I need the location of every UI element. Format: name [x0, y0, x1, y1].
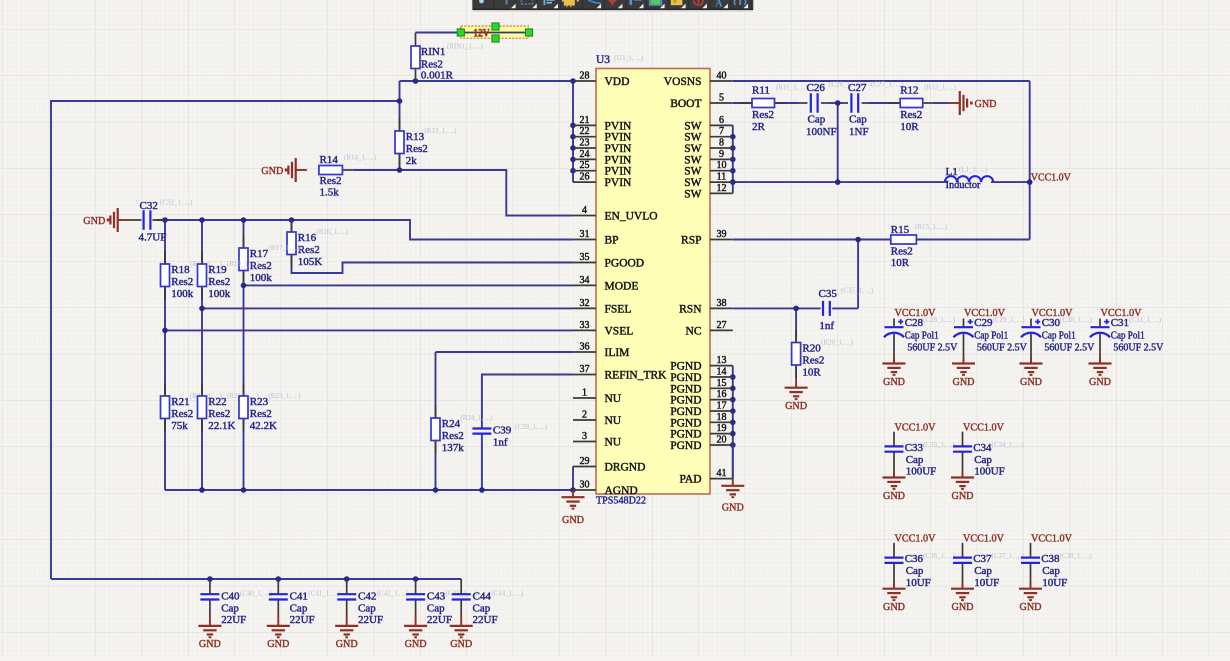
svg-text:10R: 10R: [802, 366, 821, 378]
resistor R16 105K: [291, 219, 293, 232]
svg-text:R14: R14: [320, 154, 339, 166]
junction RSN/R20: [793, 306, 799, 312]
wire BOOT net: [733, 102, 799, 104]
svg-text:Cap: Cap: [290, 603, 308, 615]
svg-text:GND: GND: [1020, 376, 1042, 388]
junction R19 top: [199, 217, 205, 223]
junction PVIN23: [570, 145, 576, 151]
svg-text:R21: R21: [171, 396, 189, 408]
svg-text:Res2: Res2: [421, 58, 443, 70]
pin 23 PVIN (left): [573, 138, 632, 156]
capacitor C36 10UF: [883, 533, 956, 613]
svg-text:VCC1.0V: VCC1.0V: [963, 421, 1004, 433]
svg-text:GND: GND: [883, 376, 905, 388]
svg-text:PGND: PGND: [670, 372, 701, 384]
junction PVIN24: [570, 157, 576, 163]
pin 8 SW (right): [684, 138, 733, 156]
wire R16 column: [291, 220, 293, 232]
junction VDD/PVIN: [570, 78, 576, 84]
svg-text:GND: GND: [953, 376, 975, 388]
svg-text:C27: C27: [848, 82, 867, 94]
toolbar icon: place pin: [506, 0, 508, 5]
svg-text:GND: GND: [83, 215, 105, 227]
capacitor C32 4.7UF: [130, 199, 193, 244]
svg-text:32: 32: [580, 298, 590, 309]
wire drop x399.5 VDD rail to left rail: [399, 81, 401, 101]
svg-text:VDD: VDD: [605, 76, 630, 88]
pin 37 REFIN_TRK (left): [573, 364, 667, 382]
svg-text:Res2: Res2: [320, 175, 342, 187]
svg-text:C33: C33: [905, 442, 924, 454]
wire RSP-RSN vertical x858.1: [857, 240, 859, 309]
svg-text:21: 21: [580, 115, 590, 126]
svg-text:(R23_1, ...): (R23_1, ...): [268, 392, 301, 400]
svg-text:31: 31: [580, 229, 590, 240]
svg-text:C42: C42: [358, 591, 376, 603]
svg-text:PGND: PGND: [670, 406, 701, 418]
svg-text:GND: GND: [883, 601, 905, 613]
svg-text:13: 13: [717, 355, 727, 366]
capacitor C43 22UF: [404, 579, 478, 650]
svg-text:Cap: Cap: [974, 454, 992, 466]
svg-text:137k: 137k: [442, 442, 465, 454]
pin 33 VSEL (left): [573, 320, 633, 338]
resistor R13 2k: [395, 118, 457, 167]
svg-text:SW: SW: [684, 154, 701, 166]
svg-text:560UF 2.5V: 560UF 2.5V: [1113, 341, 1163, 353]
svg-text:1: 1: [582, 388, 587, 399]
junction PGND14: [730, 374, 736, 380]
svg-text:100UF: 100UF: [974, 466, 1005, 478]
svg-text:Cap Pol1: Cap Pol1: [974, 329, 1008, 341]
junction R13 bottom / R14 net: [397, 167, 403, 173]
wire AGND rail y490: [165, 489, 573, 491]
svg-text:100k: 100k: [250, 272, 272, 284]
svg-text:GND: GND: [1020, 601, 1042, 613]
svg-text:PVIN: PVIN: [605, 154, 633, 166]
resistor R24 137k: [435, 405, 437, 418]
svg-text:(R16_1, ...): (R16_1, ...): [316, 228, 349, 236]
svg-text:PGND: PGND: [670, 361, 701, 373]
svg-text:GND: GND: [952, 490, 974, 502]
svg-text:VCC1.0V: VCC1.0V: [895, 533, 936, 545]
svg-text:22: 22: [580, 126, 590, 137]
svg-text:2R: 2R: [752, 121, 766, 133]
svg-text:(C27_1, ...): (C27_1, ...): [871, 81, 904, 89]
junction PVIN21: [570, 123, 576, 129]
svg-text:560UF 2.5V: 560UF 2.5V: [1044, 341, 1094, 353]
svg-text:NC: NC: [686, 325, 702, 337]
pin 36 ILIM (left): [573, 342, 629, 360]
pin 41 PAD (right): [680, 468, 733, 486]
resistor R14 1.5k: [319, 154, 377, 199]
svg-text:SW: SW: [684, 166, 701, 178]
resistor R12 10R: [888, 102, 900, 104]
svg-text:Cap: Cap: [427, 603, 445, 615]
svg-text:C29: C29: [974, 317, 993, 329]
pin 30 AGND (left): [573, 480, 638, 498]
svg-text:(L1_1, ...): (L1_1, ...): [959, 166, 988, 174]
svg-text:40: 40: [717, 71, 727, 82]
svg-text:20: 20: [717, 435, 727, 446]
svg-text:41: 41: [717, 468, 727, 479]
resistor R19 100k: [201, 251, 203, 264]
junction SW8: [730, 145, 736, 151]
svg-text:PGND: PGND: [670, 429, 701, 441]
capacitor C37 10UF: [951, 533, 1024, 613]
junction PVIN25: [570, 168, 576, 174]
pin 20 PGND (right): [670, 435, 733, 453]
capacitor C27 1NF: [848, 81, 904, 138]
resistor R22 22.1K: [201, 383, 203, 396]
resistor R21 75k: [164, 383, 166, 396]
svg-text:(C37_1, ...): (C37_1, ...): [992, 552, 1025, 560]
junction C42: [344, 576, 350, 582]
capacitor C40 22UF: [198, 579, 272, 650]
op-amp U3 TPS548D22 body: [596, 54, 710, 507]
resistor R11 2R: [733, 84, 808, 133]
svg-text:4: 4: [582, 205, 587, 216]
svg-text:(RIN1_1, ...): (RIN1_1, ...): [447, 43, 484, 51]
svg-text:GND: GND: [261, 165, 283, 177]
toolbar icon: place sheet symbol: [649, 0, 663, 6]
toolbar icon: power port (red): [608, 0, 618, 3]
capacitor C39 1nf: [472, 423, 547, 448]
svg-text:(C30_1, ...): (C30_1, ...): [1060, 316, 1093, 324]
svg-text:0.001R: 0.001R: [421, 70, 454, 82]
svg-text:1NF: 1NF: [849, 126, 869, 138]
svg-text:(C42_1, ...): (C42_1, ...): [377, 590, 410, 598]
svg-text:(C41_1, ...): (C41_1, ...): [308, 590, 341, 598]
capacitor C35 1nf: [819, 287, 874, 333]
ground GND at R12: [949, 91, 997, 115]
svg-text:(U3_1, ...): (U3_1, ...): [614, 54, 644, 62]
junction R24/AGND: [433, 487, 439, 493]
svg-text:Res2: Res2: [171, 276, 193, 288]
svg-text:Cap: Cap: [1042, 565, 1060, 577]
svg-text:Res2: Res2: [900, 109, 922, 121]
svg-text:C36: C36: [905, 553, 924, 565]
wire R16 to PGOOD jog: [292, 255, 574, 273]
pin 29 DRGND (left): [573, 456, 645, 474]
svg-text:(C40_1, ...): (C40_1, ...): [240, 590, 273, 598]
pin 27 NC (right): [686, 320, 733, 338]
svg-text:35: 35: [580, 252, 590, 263]
wire R22 column: [201, 308, 203, 396]
toolbar icon: place bus: [630, 0, 633, 5]
svg-text:105K: 105K: [298, 256, 323, 268]
svg-text:24: 24: [580, 149, 590, 160]
svg-text:(R11_1, ...): (R11_1, ...): [776, 84, 808, 92]
svg-text:16: 16: [717, 389, 727, 400]
svg-text:560UF 2.5V: 560UF 2.5V: [907, 341, 957, 353]
svg-text:Cap: Cap: [473, 603, 491, 615]
svg-text:PGOOD: PGOOD: [605, 258, 645, 270]
svg-text:VCC1.0V: VCC1.0V: [1031, 172, 1071, 184]
svg-text:(C34_1, ...): (C34_1, ...): [992, 441, 1025, 449]
pin 1 NU (left): [573, 388, 622, 406]
wire ILIM y352: [436, 351, 574, 353]
svg-text:1.5k: 1.5k: [320, 187, 340, 199]
svg-text:Cap Pol1: Cap Pol1: [1111, 329, 1145, 341]
ground GND at PAD: [721, 445, 744, 514]
svg-text:PVIN: PVIN: [605, 132, 633, 144]
pin 15 PGND (right): [670, 378, 733, 396]
svg-text:C37: C37: [973, 553, 992, 565]
wire R13 column: [399, 101, 401, 131]
svg-text:10UF: 10UF: [906, 577, 931, 589]
svg-text:R13: R13: [406, 131, 425, 143]
junction R19/FSEL: [199, 306, 205, 312]
svg-text:R18: R18: [171, 264, 190, 276]
svg-text:GND: GND: [785, 400, 807, 412]
svg-text:28: 28: [580, 71, 590, 82]
junction C43: [413, 576, 419, 582]
toolbar icon: probe: [479, 0, 484, 3]
toolbar icon: directives: [734, 0, 735, 5]
svg-text:6: 6: [719, 115, 724, 126]
svg-text:C41: C41: [290, 591, 308, 603]
svg-text:12: 12: [717, 183, 727, 194]
resistor R20 10R: [792, 330, 854, 381]
svg-text:R24: R24: [442, 418, 461, 430]
svg-text:Cap: Cap: [849, 114, 867, 126]
svg-text:RIN1: RIN1: [421, 46, 445, 58]
svg-text:Cap Pol1: Cap Pol1: [905, 329, 939, 341]
wire R21 column: [164, 330, 166, 396]
junction R16 top: [289, 217, 295, 223]
svg-text:(R13_1, ...): (R13_1, ...): [424, 127, 457, 135]
svg-text:Cap: Cap: [221, 603, 239, 615]
svg-text:C43: C43: [427, 591, 446, 603]
svg-text:5: 5: [719, 93, 724, 104]
wire C32/BP net y220: [156, 220, 573, 240]
pin 17 PGND (right): [670, 401, 733, 419]
wire DRGND jog: [572, 467, 574, 491]
svg-text:PAD: PAD: [680, 474, 702, 486]
svg-text:34: 34: [580, 275, 590, 286]
svg-text:37: 37: [580, 364, 590, 375]
svg-text:10R: 10R: [900, 121, 919, 133]
svg-text:C28: C28: [905, 317, 924, 329]
pin 39 RSP (right): [681, 229, 733, 247]
svg-text:Cap: Cap: [808, 114, 826, 126]
wire RSP y239.5: [733, 239, 891, 241]
svg-text:C38: C38: [1041, 553, 1060, 565]
svg-text:42.2K: 42.2K: [250, 420, 277, 432]
junction R18/VSEL: [162, 328, 168, 334]
capacitor C44 22UF: [450, 579, 524, 650]
toolbar icon: place wire: [588, 0, 601, 3]
svg-text:Res2: Res2: [752, 109, 774, 121]
toolbar icon: annotate (yellow doc): [671, 0, 683, 5]
capacitor C38 10UF: [1019, 533, 1092, 613]
junction VCC1.0V node: [1027, 179, 1033, 185]
junction AGND/GND: [570, 487, 576, 493]
svg-text:Cap: Cap: [974, 565, 992, 577]
pin 2 NU (left): [573, 410, 622, 428]
junction PGND17: [730, 408, 736, 414]
svg-text:C32: C32: [140, 200, 158, 212]
junction R23/AGND: [241, 487, 247, 493]
svg-text:(C35_1, ...): (C35_1, ...): [841, 287, 874, 295]
svg-text:22UF: 22UF: [358, 614, 383, 626]
svg-text:100NF: 100NF: [806, 126, 837, 138]
resistor R15 10R: [891, 223, 948, 269]
junction PGND19: [730, 431, 736, 437]
svg-text:4.7UF: 4.7UF: [139, 231, 167, 243]
svg-text:U3: U3: [596, 54, 610, 66]
wire PVIN ladder x573: [572, 81, 574, 182]
junction C41: [276, 576, 282, 582]
svg-text:17: 17: [717, 401, 727, 412]
svg-text:L1: L1: [946, 166, 958, 178]
junction PGND20: [730, 442, 736, 448]
svg-text:GND: GND: [975, 98, 997, 110]
svg-text:Res2: Res2: [208, 276, 230, 288]
pin 3 NU (left): [573, 431, 622, 449]
svg-text:10R: 10R: [891, 257, 910, 269]
svg-text:Res2: Res2: [298, 244, 320, 256]
wire SW to L1 y182: [733, 181, 945, 183]
capacitor C31 560UF (polarized): [1089, 307, 1164, 388]
svg-text:10UF: 10UF: [1042, 577, 1067, 589]
ground GND at R14: [261, 158, 307, 182]
svg-text:(C29_1, ...): (C29_1, ...): [993, 316, 1026, 324]
svg-text:GND: GND: [1089, 376, 1111, 388]
wire VDD rail y81: [400, 80, 574, 82]
svg-text:VCC1.0V: VCC1.0V: [1031, 533, 1072, 545]
wire VSEL y330.4: [165, 329, 573, 331]
svg-text:VCC1.0V: VCC1.0V: [895, 421, 936, 433]
junction BOOT cap to SW: [835, 179, 841, 185]
svg-text:29: 29: [580, 456, 590, 467]
svg-text:(R19_1, ...): (R19_1, ...): [227, 260, 260, 268]
svg-text:NU: NU: [605, 437, 622, 449]
resistor R17 100k: [243, 235, 245, 248]
svg-text:25: 25: [580, 160, 590, 171]
svg-text:Cap Pol1: Cap Pol1: [1042, 329, 1076, 341]
svg-text:Cap: Cap: [906, 454, 924, 466]
svg-text:12V: 12V: [473, 28, 490, 40]
svg-text:75k: 75k: [171, 420, 188, 432]
svg-text:(R17_1, ...): (R17_1, ...): [268, 244, 301, 252]
svg-text:R15: R15: [891, 224, 910, 236]
svg-text:Res2: Res2: [406, 143, 428, 155]
net label 12V (selected): [457, 23, 532, 42]
svg-text:EN_UVLO: EN_UVLO: [605, 211, 658, 223]
wire 12V net to RIN1 top: [416, 32, 531, 34]
svg-text:GND: GND: [883, 490, 905, 502]
svg-text:(C39_1, ...): (C39_1, ...): [515, 423, 548, 431]
svg-text:Cap: Cap: [358, 603, 376, 615]
capacitor C41 22UF: [267, 579, 341, 650]
svg-text:(R12_1, ...): (R12_1, ...): [924, 84, 957, 92]
pin 13 PGND (right): [670, 355, 733, 373]
svg-text:C26: C26: [807, 82, 826, 94]
svg-text:R12: R12: [900, 85, 918, 97]
junction C39/AGND: [479, 487, 485, 493]
svg-text:PVIN: PVIN: [605, 166, 633, 178]
capacitor C34 100UF: [951, 421, 1024, 501]
svg-text:SW: SW: [684, 132, 701, 144]
wire R23 column: [243, 285, 245, 396]
svg-text:PVIN: PVIN: [605, 143, 633, 155]
svg-text:GND: GND: [405, 638, 427, 650]
svg-text:Res2: Res2: [208, 408, 230, 420]
svg-text:9: 9: [719, 149, 724, 160]
wire MODE y285.4: [244, 284, 574, 286]
junction RSP/C35: [855, 237, 861, 243]
pin 4 EN_UVLO (left): [573, 205, 658, 223]
junction left rail / R13: [397, 98, 403, 104]
svg-text:2: 2: [582, 410, 587, 421]
svg-text:(R20_1, ...): (R20_1, ...): [821, 339, 854, 347]
resistor R23 42.2K: [243, 383, 245, 396]
wire C39 bottom: [481, 434, 483, 491]
wire R18 column: [164, 220, 166, 264]
svg-text:PVIN: PVIN: [605, 120, 633, 132]
pin 10 SW (right): [684, 160, 733, 178]
svg-text:AGND: AGND: [605, 485, 638, 497]
svg-text:R23: R23: [250, 396, 269, 408]
capacitor C42 22UF: [335, 579, 409, 650]
svg-text:R16: R16: [298, 232, 317, 244]
svg-text:22.1K: 22.1K: [208, 420, 235, 432]
svg-text:SW: SW: [684, 120, 701, 132]
pin 12 SW (right): [684, 183, 733, 201]
svg-text:18: 18: [717, 412, 727, 423]
svg-text:C34: C34: [973, 442, 992, 454]
svg-text:Cap: Cap: [906, 565, 924, 577]
junction SW7: [730, 134, 736, 140]
junction C40: [207, 576, 213, 582]
svg-text:26: 26: [580, 172, 590, 183]
svg-text:(R14_1, ...): (R14_1, ...): [344, 154, 377, 162]
svg-text:22UF: 22UF: [290, 614, 315, 626]
svg-text:(R15_1, ...): (R15_1, ...): [915, 223, 948, 231]
svg-text:1nf: 1nf: [819, 320, 834, 332]
svg-text:GND: GND: [336, 638, 358, 650]
svg-text:15: 15: [717, 378, 727, 389]
toolbar icon: align: [544, 0, 546, 5]
svg-text:Res2: Res2: [891, 245, 913, 257]
wire R24 column: [435, 352, 437, 418]
wire bottom bus y579: [51, 578, 461, 580]
svg-text:BOOT: BOOT: [670, 98, 701, 110]
svg-text:22UF: 22UF: [221, 614, 246, 626]
svg-text:100UF: 100UF: [906, 466, 937, 478]
wire BOOT cap drop x837.7: [837, 103, 839, 182]
pin 6 SW (right): [684, 115, 733, 132]
junction BOOT/C26-C27: [835, 100, 841, 106]
svg-text:C40: C40: [221, 591, 240, 603]
pin 22 PVIN (left): [573, 126, 632, 144]
svg-text:GND: GND: [199, 638, 221, 650]
svg-text:100k: 100k: [171, 288, 194, 300]
svg-text:(C38_1, ...): (C38_1, ...): [1060, 552, 1093, 560]
svg-text:38: 38: [717, 298, 727, 309]
toolbar icon: place part (yellow IC): [564, 0, 575, 6]
pin 16 PGND (right): [670, 389, 733, 407]
svg-text:(C32_1, ...): (C32_1, ...): [160, 199, 193, 207]
wire FSEL y308.4: [202, 307, 573, 309]
svg-text:RSP: RSP: [681, 235, 701, 247]
svg-text:R11: R11: [752, 85, 770, 97]
junction R17/MODE: [241, 283, 247, 289]
svg-text:NU: NU: [605, 393, 622, 405]
svg-text:(C44_1, ...): (C44_1, ...): [491, 590, 524, 598]
